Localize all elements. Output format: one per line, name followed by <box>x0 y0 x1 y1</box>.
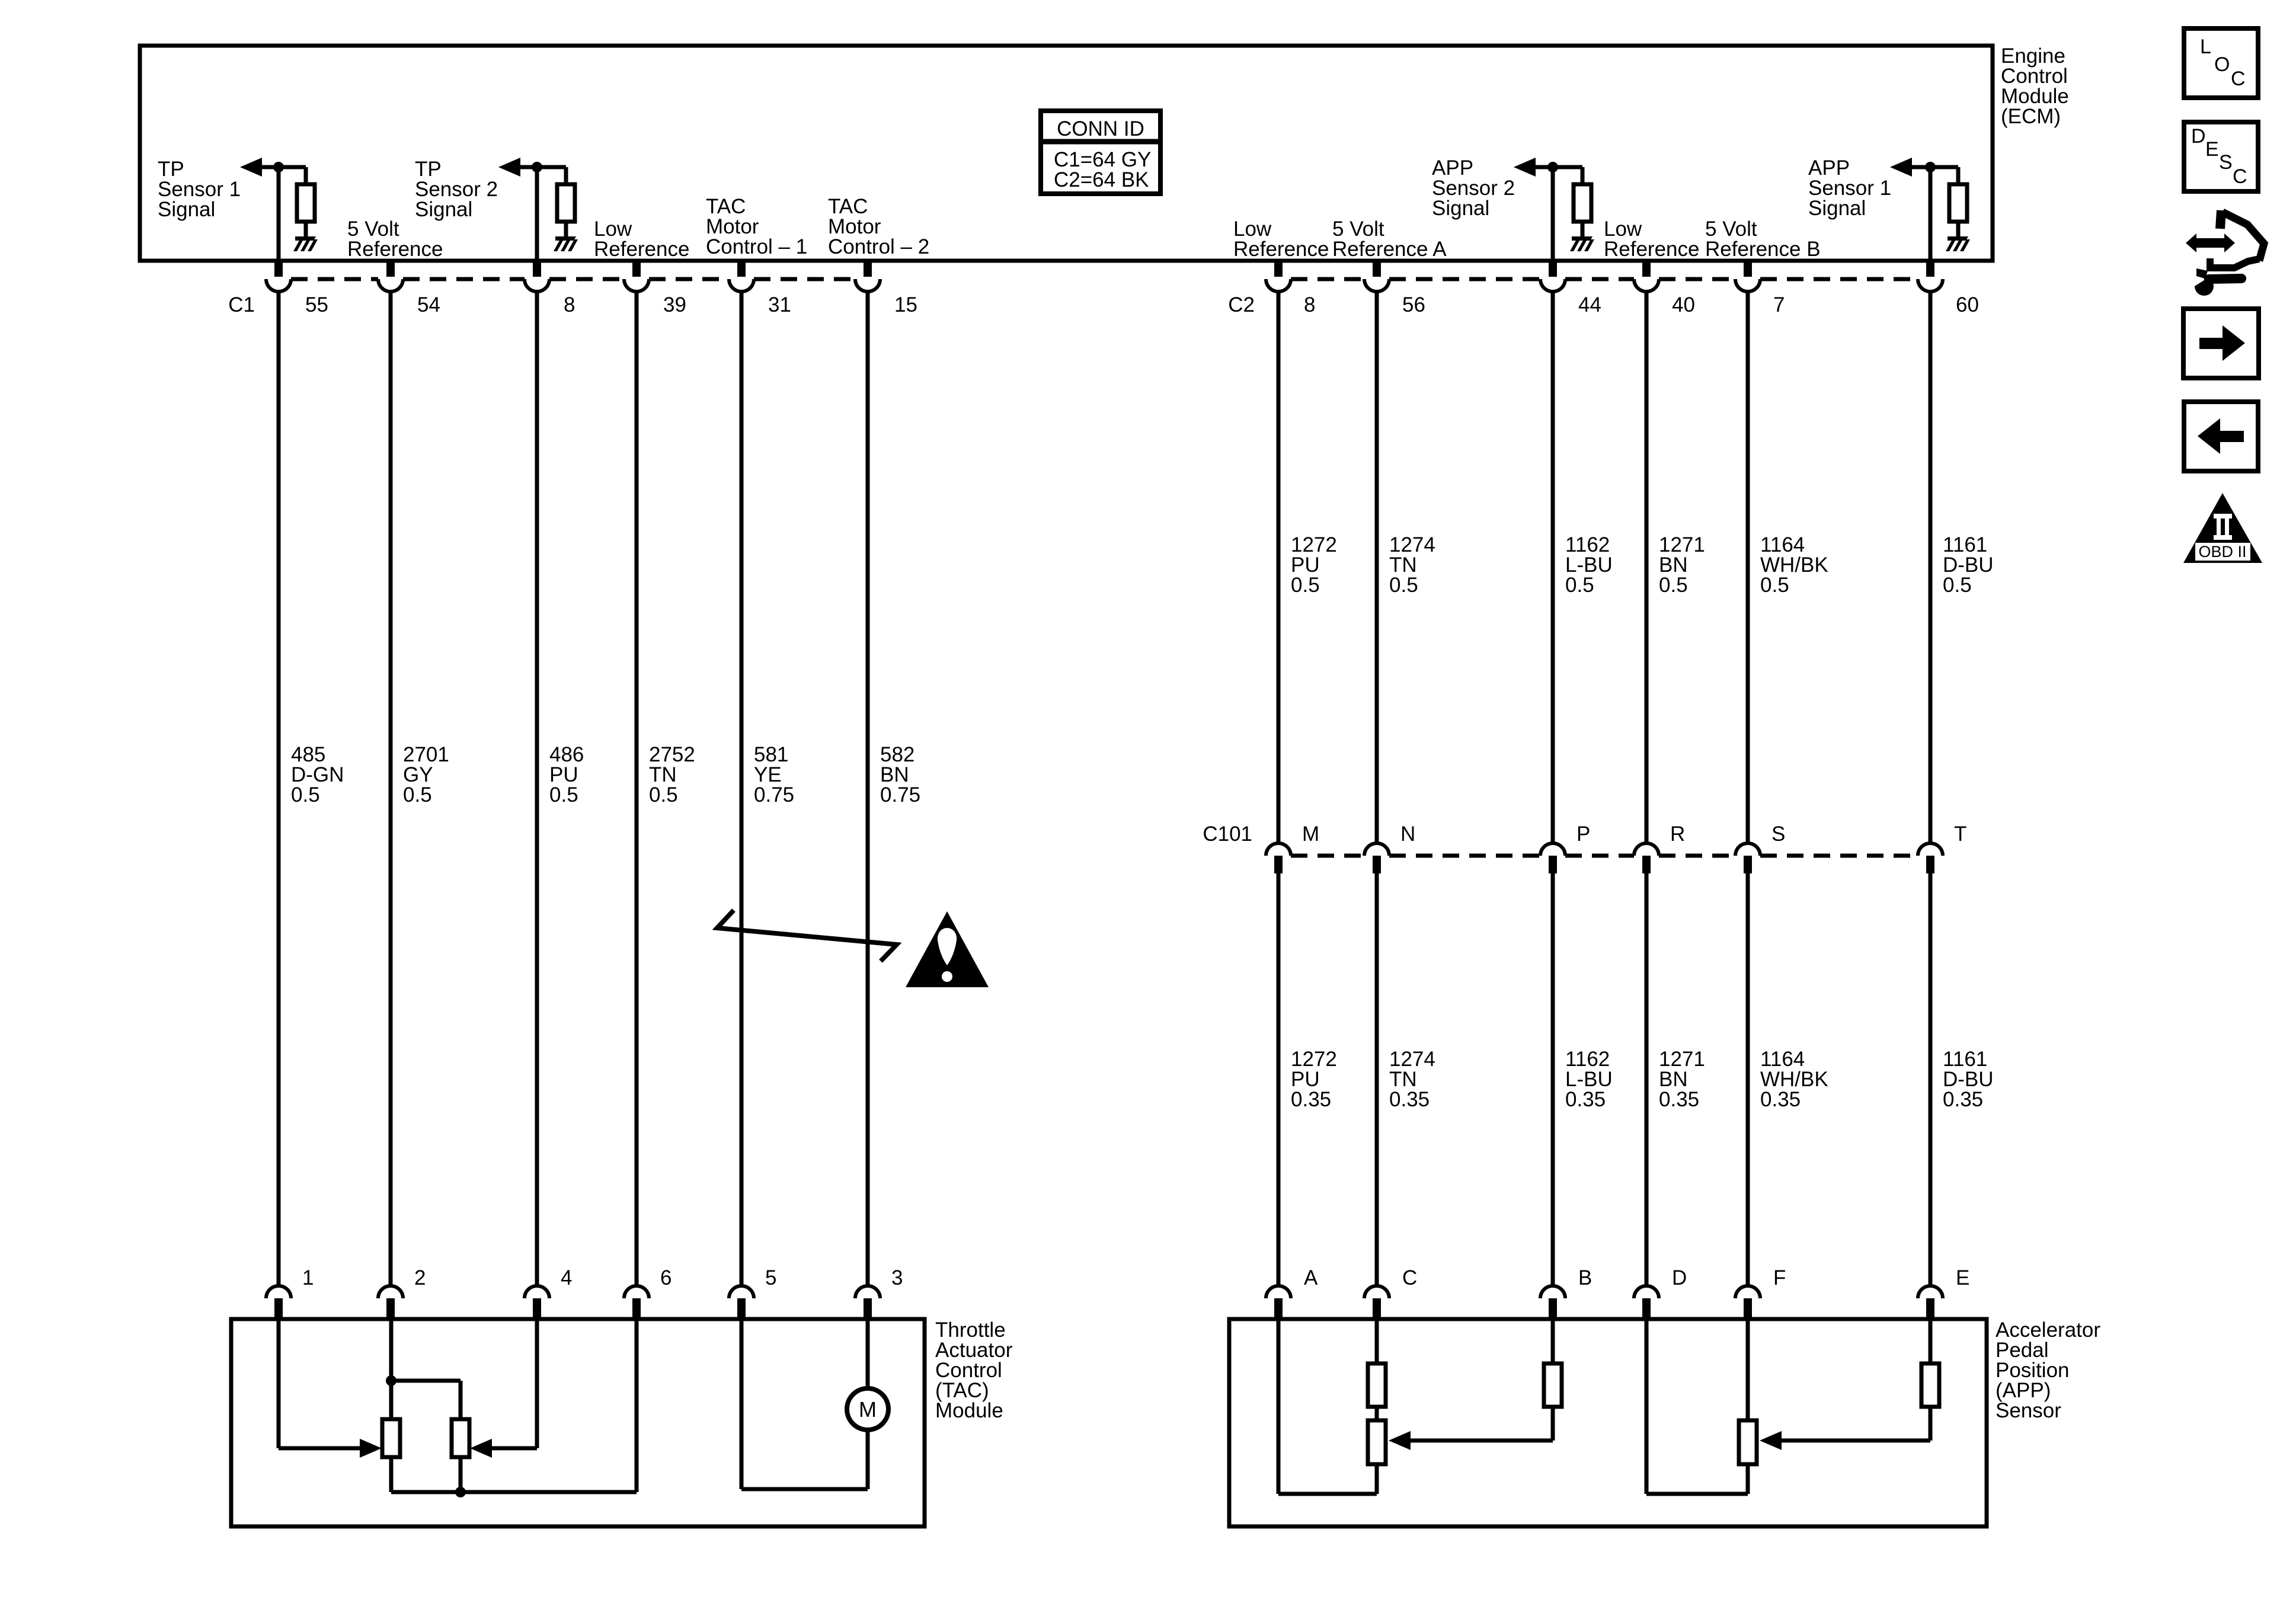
svg-text:Control – 2: Control – 2 <box>828 235 929 258</box>
TP sensor 1 signal arrow <box>240 158 262 177</box>
potentiometer TAC (element 1) <box>382 1419 400 1457</box>
wire motor bottom lead <box>866 1430 870 1489</box>
svg-text:0.5: 0.5 <box>1389 574 1418 597</box>
svg-text:C1: C1 <box>228 293 255 316</box>
junction APP1 <box>1925 162 1936 172</box>
ECM (Engine Control Module) box <box>140 46 1993 261</box>
svg-text:S: S <box>1771 822 1785 846</box>
wire TAC pin5 down <box>740 1319 744 1489</box>
ground (APP sensor 2 pull-up) <box>1570 236 1594 251</box>
wiring repair icon (double arrow, connector, wrench) <box>2186 210 2264 296</box>
svg-text:0.5: 0.5 <box>1659 574 1688 597</box>
wire TAC pin1 down <box>277 1319 281 1448</box>
svg-text:T: T <box>1954 822 1966 846</box>
svg-text:0.35: 0.35 <box>1565 1088 1606 1111</box>
svg-text:E: E <box>1956 1266 1969 1289</box>
wire resistor to pot <box>1375 1407 1379 1420</box>
svg-text:L: L <box>2200 36 2211 58</box>
wire APP pinD down <box>1645 1319 1649 1494</box>
connector C101 dashed line <box>1291 854 1918 858</box>
wire 1162 L-BU upper <box>1551 292 1555 843</box>
svg-text:Signal: Signal <box>415 198 472 221</box>
connector APP pin B <box>1540 1286 1565 1319</box>
potentiometer TAC (element 2) <box>452 1419 469 1457</box>
Low Reference label (C2 pin 8) <box>1233 217 1329 261</box>
ground (TP sensor 2 pull-up) <box>554 236 578 251</box>
wire label 486 PU 0.5 <box>549 743 584 806</box>
svg-text:B: B <box>1578 1266 1592 1289</box>
connector C101 pin N <box>1364 843 1389 873</box>
TAC module box <box>231 1319 925 1526</box>
wire APP pinD to pot bottom <box>1646 1492 1748 1496</box>
wire pot bottom lead <box>1746 1464 1750 1494</box>
wire TP2 junction to pin 8 <box>535 167 539 263</box>
svg-text:0.35: 0.35 <box>1943 1088 1983 1111</box>
resistor (APP sensor 1 pull-up) <box>1949 184 1967 222</box>
svg-text:C101: C101 <box>1203 822 1252 846</box>
connector C2 pin 44 <box>1540 259 1565 292</box>
svg-text:0.5: 0.5 <box>1943 574 1972 597</box>
wire label 582 BN 0.75 <box>880 743 920 806</box>
wire 486 PU <box>535 292 539 1286</box>
APP Sensor 1 Signal label <box>1808 156 1891 220</box>
wire pinB resistor lead <box>1551 1407 1555 1441</box>
wire 582 BN <box>866 292 870 1286</box>
wire resistor top lead <box>1956 167 1961 184</box>
resistor (APP sensor 2 pull-up) <box>1574 184 1591 222</box>
wire 1274 TN upper <box>1375 292 1379 843</box>
wire label 1272 PU 0.35 <box>1291 1048 1337 1111</box>
5 Volt Reference B label <box>1705 217 1821 261</box>
svg-text:40: 40 <box>1672 293 1695 316</box>
wire 1162 L-BU lower <box>1551 873 1555 1286</box>
wire pot bottom lead <box>1375 1464 1379 1494</box>
svg-text:6: 6 <box>660 1266 671 1289</box>
wire label 1272 PU 0.5 <box>1291 533 1337 597</box>
potentiometer APP sensor 2 <box>1368 1420 1386 1464</box>
wire label 2701 GY 0.5 <box>403 743 449 806</box>
connector APP pin D <box>1634 1286 1659 1319</box>
wire APP1 arrow to resistor <box>1911 165 1958 169</box>
connector TAC pin 3 <box>855 1286 880 1319</box>
svg-text:O: O <box>2214 53 2230 76</box>
APP sensor box <box>1229 1319 1987 1526</box>
svg-text:0.75: 0.75 <box>880 783 920 806</box>
wire label 485 D-GN 0.5 <box>291 743 344 806</box>
wire APP pinB down <box>1551 1319 1555 1363</box>
connector C2 pin 56 <box>1364 259 1389 292</box>
connector TAC pin 2 <box>378 1286 403 1319</box>
svg-text:Reference: Reference <box>1233 238 1329 261</box>
wire APP pinA to pot bottom <box>1278 1492 1377 1496</box>
wire APP pinA down <box>1277 1319 1281 1494</box>
wire resistor top lead <box>304 167 308 184</box>
svg-text:OBD II: OBD II <box>2198 543 2246 561</box>
TAC Motor Control 2 label <box>828 195 929 258</box>
svg-text:(ECM): (ECM) <box>2001 105 2061 128</box>
connector TAC pin 1 <box>266 1286 291 1319</box>
connector C1 pin 54 <box>378 259 403 292</box>
svg-text:0.35: 0.35 <box>1760 1088 1801 1111</box>
wire TAC pin6 down <box>635 1319 639 1492</box>
svg-text:C: C <box>2231 68 2246 90</box>
wiper arrow APP pot (sensor 2) <box>1389 1431 1411 1450</box>
wire 2701 GY <box>389 292 393 1286</box>
svg-text:M: M <box>859 1397 877 1422</box>
connector C2 pin 40 <box>1634 259 1659 292</box>
connector C101 pin M <box>1266 843 1291 873</box>
svg-text:A: A <box>1304 1266 1318 1289</box>
svg-text:0.35: 0.35 <box>1291 1088 1331 1111</box>
wire 1274 TN lower <box>1375 873 1379 1286</box>
forward arrow icon <box>2183 309 2259 378</box>
svg-text:Control – 1: Control – 1 <box>706 235 807 258</box>
wire APP2 junction to pin 44 <box>1551 167 1555 263</box>
svg-text:M: M <box>1302 822 1319 846</box>
wire 2752 TN <box>635 292 639 1286</box>
wire pinB to wiper <box>1410 1439 1553 1443</box>
wire TP2 arrow to resistor <box>520 165 566 169</box>
wiper arrow APP pot (sensor 1) <box>1760 1431 1782 1450</box>
wire label 581 YE 0.75 <box>754 743 794 806</box>
svg-text:Signal: Signal <box>158 198 215 221</box>
svg-text:0.5: 0.5 <box>549 783 578 806</box>
wire APP pinE down <box>1929 1319 1933 1363</box>
wire TP1 junction to pin 55 <box>277 167 281 263</box>
resistor (TP sensor 2 pull-up) <box>557 184 575 222</box>
ground (TP sensor 1 pull-up) <box>293 236 318 251</box>
connector APP pin C <box>1364 1286 1389 1319</box>
svg-text:2: 2 <box>414 1266 426 1289</box>
svg-text:P: P <box>1576 822 1590 846</box>
connector C101 pin T <box>1918 843 1943 873</box>
Low Reference label <box>594 217 689 261</box>
5 Volt Reference label <box>347 217 443 261</box>
connector C101 pin S <box>1735 843 1760 873</box>
wire 485 D-GN <box>277 292 281 1286</box>
connector C1 dashed line <box>291 277 855 281</box>
wire TP1 arrow to resistor <box>261 165 306 169</box>
wire pot2 bottom lead <box>459 1457 463 1492</box>
connector C2 pin 7 <box>1735 259 1760 292</box>
wire APP pinC down <box>1375 1319 1379 1363</box>
svg-text:S: S <box>2219 151 2233 174</box>
wire APP2 arrow to resistor <box>1535 165 1582 169</box>
svg-text:15: 15 <box>894 293 917 316</box>
wire resistor bottom lead <box>564 222 568 236</box>
wire junction to resistor 2 <box>391 1379 461 1383</box>
svg-text:31: 31 <box>768 293 791 316</box>
wire label 1271 BN 0.5 <box>1659 533 1705 597</box>
svg-text:60: 60 <box>1956 293 1979 316</box>
svg-text:Reference: Reference <box>594 238 689 261</box>
wire 1271 BN upper <box>1645 292 1649 843</box>
resistor (TP sensor 1 pull-up) <box>297 184 315 222</box>
warning triangle note <box>906 911 989 987</box>
svg-text:D: D <box>1672 1266 1687 1289</box>
connector C1 pin 31 <box>729 259 754 292</box>
connector TAC pin 6 <box>624 1286 649 1319</box>
APP Sensor 2 Signal label <box>1432 156 1515 220</box>
wire TAC pin4 down <box>535 1319 539 1448</box>
connector APP pin F <box>1735 1286 1760 1319</box>
wire resistor top lead <box>1581 167 1585 184</box>
wire resistor bottom lead <box>1956 222 1961 236</box>
TP Sensor 2 Signal label <box>415 158 498 221</box>
wire TAC pin1 to wiper <box>279 1446 360 1451</box>
junction TAC pin2 <box>386 1375 396 1386</box>
wire label 2752 TN 0.5 <box>649 743 695 806</box>
svg-text:C2=64 BK: C2=64 BK <box>1054 168 1149 191</box>
svg-text:E: E <box>2205 138 2219 161</box>
CONN ID table <box>1041 111 1160 194</box>
svg-text:Reference: Reference <box>1604 238 1699 261</box>
OBD II icon <box>2183 493 2262 563</box>
junction TP2 <box>532 162 542 172</box>
potentiometer APP sensor 1 <box>1739 1420 1757 1464</box>
svg-text:5: 5 <box>765 1266 776 1289</box>
wire TAC pin2 down <box>389 1319 394 1419</box>
wire 581 YE <box>740 292 744 1286</box>
APP sensor title <box>1996 1318 2100 1422</box>
resistor APP (sensor 2 divider) <box>1368 1363 1386 1407</box>
svg-text:C: C <box>2233 165 2247 188</box>
wire 1161 D-BU upper <box>1929 292 1933 843</box>
wire label 1164 WH/BK 0.35 <box>1760 1048 1828 1111</box>
connector APP pin A <box>1266 1286 1291 1319</box>
connector C2 pin 60 <box>1918 259 1943 292</box>
wire label 1271 BN 0.35 <box>1659 1048 1705 1111</box>
svg-text:0.5: 0.5 <box>291 783 320 806</box>
wire 1164 WH/BK upper <box>1746 292 1750 843</box>
svg-text:0.5: 0.5 <box>1760 574 1789 597</box>
svg-text:0.5: 0.5 <box>1565 574 1594 597</box>
svg-text:4: 4 <box>561 1266 572 1289</box>
junction APP2 <box>1547 162 1558 172</box>
svg-text:7: 7 <box>1773 293 1785 316</box>
5 Volt Reference A label <box>1332 217 1447 261</box>
connector C101 pin R <box>1634 843 1659 873</box>
svg-text:C2: C2 <box>1228 293 1255 316</box>
wire 1272 PU upper <box>1277 292 1281 843</box>
wire 1161 D-BU lower <box>1929 873 1933 1286</box>
svg-text:0.35: 0.35 <box>1659 1088 1699 1111</box>
ECM title <box>2001 44 2069 128</box>
wire TAC pin3 down <box>866 1319 870 1389</box>
APP sensor 2 signal arrow <box>1514 158 1536 177</box>
svg-text:54: 54 <box>417 293 440 316</box>
svg-text:39: 39 <box>663 293 686 316</box>
TAC module title <box>935 1318 1013 1422</box>
TAC Motor Control 1 label <box>706 195 807 258</box>
wire APP pinF down <box>1746 1319 1750 1420</box>
wire 1164 WH/BK lower <box>1746 873 1750 1286</box>
svg-text:Sensor: Sensor <box>1996 1399 2061 1422</box>
svg-text:Signal: Signal <box>1808 197 1866 220</box>
APP sensor 1 signal arrow <box>1890 158 1912 177</box>
connector C2 dashed line <box>1291 277 1918 281</box>
svg-text:Reference: Reference <box>347 238 443 261</box>
svg-text:R: R <box>1670 822 1685 846</box>
wiper arrow TAC pot 2 <box>470 1439 492 1458</box>
wire pot1 bottom lead <box>389 1457 394 1492</box>
wiper arrow TAC pot 1 <box>360 1439 382 1458</box>
back arrow icon <box>2184 402 2258 471</box>
svg-text:Module: Module <box>935 1399 1003 1422</box>
wire resistor bottom lead <box>304 222 308 236</box>
svg-text:F: F <box>1773 1266 1786 1289</box>
wire TAC motor return <box>741 1487 868 1491</box>
connector C101 pin P <box>1540 843 1565 873</box>
wire label 1274 TN 0.35 <box>1389 1048 1435 1111</box>
wire pinE resistor lead <box>1929 1407 1933 1441</box>
svg-text:56: 56 <box>1402 293 1425 316</box>
svg-text:N: N <box>1400 822 1415 846</box>
ground (APP sensor 1 pull-up) <box>1946 236 1970 251</box>
connector TAC pin 4 <box>525 1286 549 1319</box>
wire resistor 2 top lead <box>459 1381 463 1419</box>
svg-text:0.35: 0.35 <box>1389 1088 1430 1111</box>
svg-text:8: 8 <box>564 293 575 316</box>
wire resistor top lead <box>564 167 568 184</box>
wire APP1 junction to pin 60 <box>1929 167 1933 263</box>
connector C1 pin 8 <box>525 259 549 292</box>
svg-text:55: 55 <box>305 293 328 316</box>
LOC icon <box>2184 28 2258 98</box>
svg-text:0.5: 0.5 <box>649 783 678 806</box>
wire label 1162 L-BU 0.5 <box>1565 533 1613 597</box>
TP sensor 2 signal arrow <box>498 158 520 177</box>
svg-text:0.5: 0.5 <box>403 783 432 806</box>
connector APP pin E <box>1918 1286 1943 1319</box>
wire TAC common rail <box>391 1490 637 1494</box>
wire resistor bottom lead <box>1581 222 1585 236</box>
svg-text:8: 8 <box>1304 293 1315 316</box>
DESC icon <box>2184 122 2258 191</box>
svg-text:0.75: 0.75 <box>754 783 794 806</box>
Low Reference label (C2 pin 40) <box>1604 217 1699 261</box>
wire TAC pin4 to wiper <box>491 1446 537 1451</box>
svg-text:Reference A: Reference A <box>1332 238 1447 261</box>
connector C2 pin 8 <box>1266 259 1291 292</box>
wire pinE to wiper <box>1781 1439 1930 1443</box>
svg-text:Signal: Signal <box>1432 197 1489 220</box>
junction TAC common <box>455 1487 466 1497</box>
TP Sensor 1 Signal label <box>158 158 241 221</box>
svg-text:3: 3 <box>891 1266 903 1289</box>
svg-text:CONN ID: CONN ID <box>1057 117 1144 140</box>
connector C1 pin 55 <box>266 259 291 292</box>
wire label 1161 D-BU 0.35 <box>1943 1048 1994 1111</box>
wire label 1274 TN 0.5 <box>1389 533 1435 597</box>
svg-text:Reference B: Reference B <box>1705 238 1821 261</box>
wire label 1162 L-BU 0.35 <box>1565 1048 1613 1111</box>
harness break marker <box>717 910 897 961</box>
connector C1 pin 15 <box>855 259 880 292</box>
svg-text:D: D <box>2191 125 2206 148</box>
wire 1272 PU lower <box>1277 873 1281 1286</box>
svg-text:C: C <box>1402 1266 1417 1289</box>
resistor APP (pin B) <box>1544 1363 1562 1407</box>
wire 1271 BN lower <box>1645 873 1649 1286</box>
wire label 1164 WH/BK 0.5 <box>1760 533 1828 597</box>
svg-text:0.5: 0.5 <box>1291 574 1320 597</box>
connector TAC pin 5 <box>729 1286 754 1319</box>
svg-text:1: 1 <box>302 1266 314 1289</box>
junction TP1 <box>273 162 284 172</box>
wire label 1161 D-BU 0.5 <box>1943 533 1994 597</box>
svg-text:44: 44 <box>1578 293 1601 316</box>
resistor APP (pin E) <box>1921 1363 1939 1407</box>
connector C1 pin 39 <box>624 259 649 292</box>
motor M (throttle actuator) <box>847 1388 888 1430</box>
